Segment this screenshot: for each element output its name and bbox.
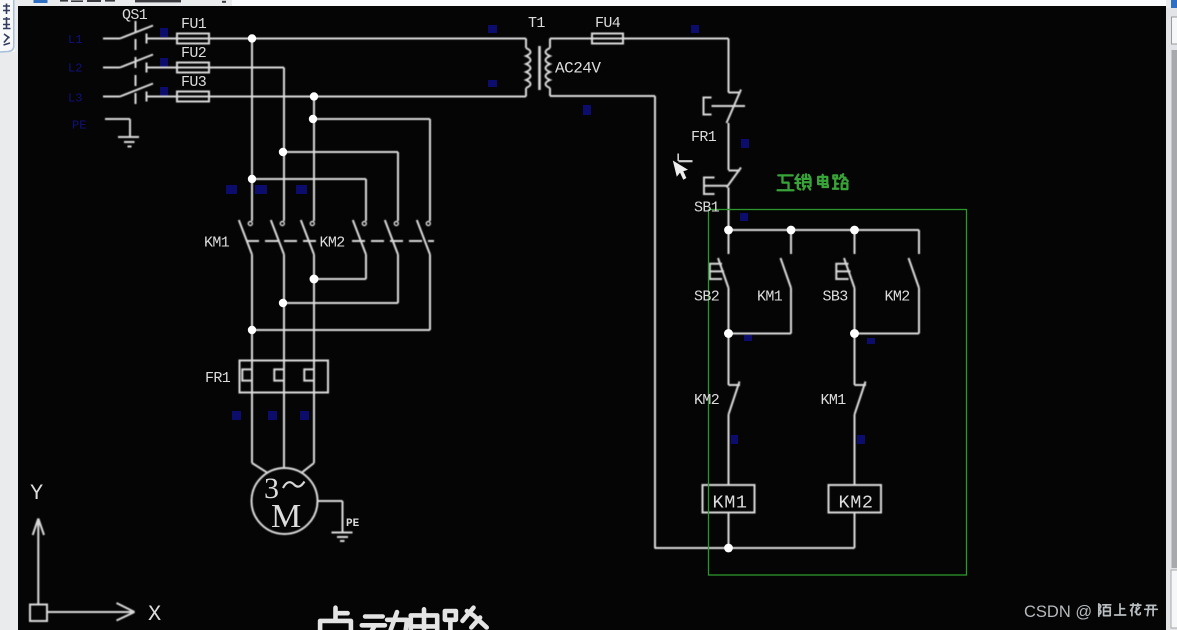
- svg-text:FU1: FU1: [181, 16, 207, 33]
- svg-text:FU4: FU4: [595, 15, 621, 32]
- svg-text:QS1: QS1: [122, 7, 148, 24]
- svg-text:KM2: KM2: [885, 289, 910, 306]
- svg-text:SB1: SB1: [694, 200, 720, 217]
- svg-text:SB3: SB3: [823, 289, 849, 306]
- svg-text:PE: PE: [346, 518, 360, 530]
- svg-text:FR1: FR1: [691, 129, 717, 146]
- svg-text:PE: PE: [72, 119, 86, 133]
- svg-text:KM1: KM1: [204, 235, 230, 252]
- svg-text:T1: T1: [528, 15, 545, 32]
- svg-text:SB2: SB2: [694, 289, 719, 306]
- svg-text:X: X: [148, 602, 161, 627]
- svg-text:FR1: FR1: [205, 370, 231, 387]
- svg-text:KM1: KM1: [821, 392, 847, 409]
- svg-text:Y: Y: [30, 481, 43, 506]
- svg-text:M: M: [271, 498, 301, 535]
- svg-text:L1: L1: [68, 33, 82, 47]
- svg-text:FU3: FU3: [181, 74, 207, 91]
- svg-text:KM1: KM1: [713, 493, 748, 514]
- svg-text:KM2: KM2: [320, 235, 345, 252]
- svg-text:AC24V: AC24V: [555, 60, 601, 78]
- svg-text:L3: L3: [68, 92, 82, 106]
- svg-text:KM2: KM2: [839, 493, 874, 514]
- svg-text:KM2: KM2: [694, 392, 719, 409]
- svg-text:KM1: KM1: [757, 289, 783, 306]
- svg-text:FU2: FU2: [181, 45, 206, 62]
- svg-text:CSDN @: CSDN @: [1024, 603, 1092, 621]
- svg-text:L2: L2: [68, 62, 82, 76]
